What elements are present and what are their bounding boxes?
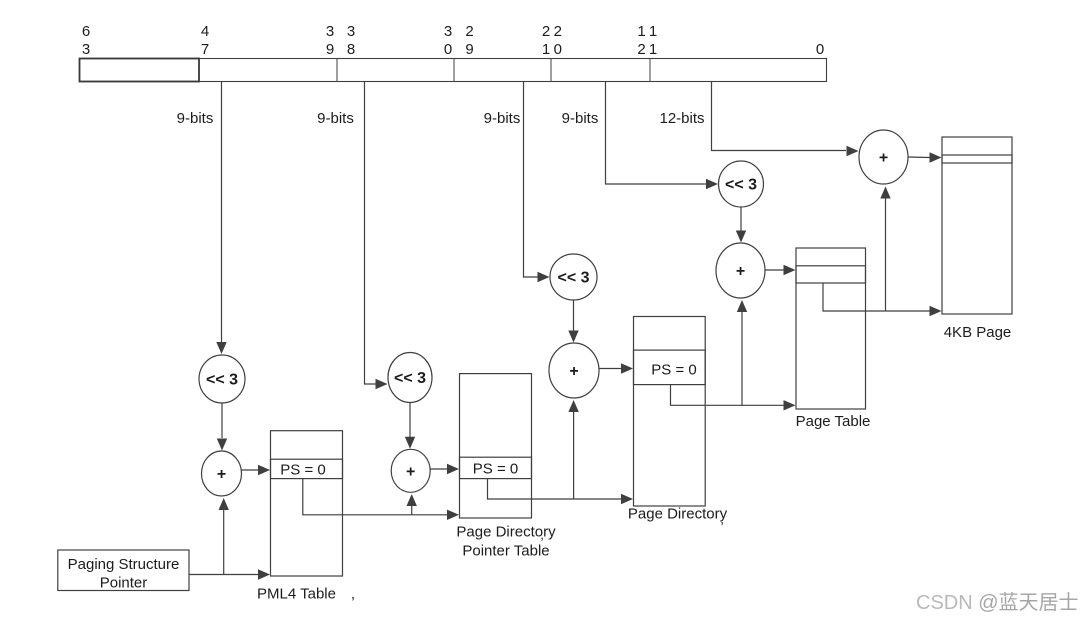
svg-text:6: 6 xyxy=(82,23,90,40)
svg-text:+: + xyxy=(569,363,578,380)
svg-text:,: , xyxy=(351,586,355,603)
svg-text:,: , xyxy=(720,512,724,527)
svg-text:8: 8 xyxy=(347,41,355,58)
svg-text:1: 1 xyxy=(649,41,657,58)
svg-text:7: 7 xyxy=(201,41,209,58)
svg-text:PML4 Table: PML4 Table xyxy=(257,586,336,603)
svg-text:Page Directory: Page Directory xyxy=(628,506,728,523)
svg-text:9-bits: 9-bits xyxy=(484,110,521,127)
svg-text:,: , xyxy=(540,527,544,542)
svg-text:2: 2 xyxy=(554,23,562,40)
svg-text:<< 3: << 3 xyxy=(206,372,238,389)
svg-text:+: + xyxy=(217,466,226,483)
svg-text:<< 3: << 3 xyxy=(394,370,426,387)
svg-text:2: 2 xyxy=(465,23,473,40)
svg-text:PS = 0: PS = 0 xyxy=(280,462,325,479)
svg-text:CSDN @蓝天居士: CSDN @蓝天居士 xyxy=(916,591,1079,614)
svg-text:1: 1 xyxy=(649,23,657,40)
svg-text:Pointer: Pointer xyxy=(100,575,148,592)
svg-text:+: + xyxy=(736,263,745,280)
svg-text:3: 3 xyxy=(444,23,452,40)
svg-text:3: 3 xyxy=(82,41,90,58)
svg-text:PS = 0: PS = 0 xyxy=(473,461,518,478)
svg-text:0: 0 xyxy=(554,41,562,58)
svg-text:PS = 0: PS = 0 xyxy=(651,362,696,379)
svg-text:2: 2 xyxy=(542,23,550,40)
svg-text:9-bits: 9-bits xyxy=(562,110,599,127)
svg-text:9-bits: 9-bits xyxy=(177,110,214,127)
svg-text:4: 4 xyxy=(201,23,209,40)
svg-text:Pointer Table: Pointer Table xyxy=(462,543,549,560)
svg-text:3: 3 xyxy=(347,23,355,40)
svg-text:1: 1 xyxy=(637,23,645,40)
svg-text:1: 1 xyxy=(542,41,550,58)
svg-text:Page Table: Page Table xyxy=(796,413,871,430)
svg-text:2: 2 xyxy=(637,41,645,58)
svg-text:4KB Page: 4KB Page xyxy=(944,324,1012,341)
svg-text:<< 3: << 3 xyxy=(557,270,589,287)
svg-text:0: 0 xyxy=(816,41,824,58)
svg-text:+: + xyxy=(406,463,415,480)
svg-text:12-bits: 12-bits xyxy=(659,110,704,127)
svg-text:+: + xyxy=(879,150,888,167)
svg-text:Paging Structure: Paging Structure xyxy=(68,556,180,573)
svg-text:<< 3: << 3 xyxy=(725,177,757,194)
svg-text:9-bits: 9-bits xyxy=(317,110,354,127)
svg-text:9: 9 xyxy=(465,41,473,58)
svg-text:9: 9 xyxy=(326,41,334,58)
svg-text:3: 3 xyxy=(326,23,334,40)
svg-text:0: 0 xyxy=(444,41,452,58)
